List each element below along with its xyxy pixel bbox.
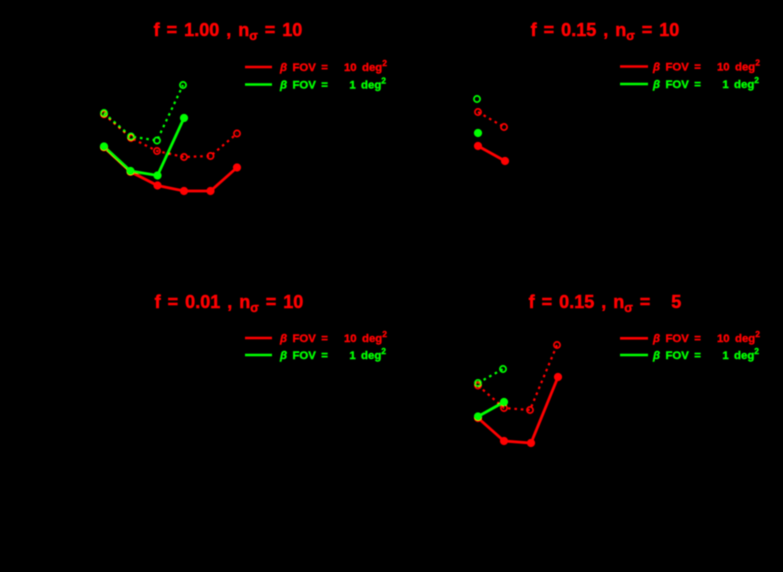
red solid curve P2 <box>478 146 505 161</box>
green open circle P2 <box>474 96 480 102</box>
legend line green <box>620 83 648 86</box>
red filled circles P1 <box>100 143 241 195</box>
green filled circles P4 <box>474 398 508 421</box>
red dashed curve P4 <box>478 345 557 410</box>
green open circles P4 <box>475 366 506 386</box>
red solid curve P4 <box>478 377 558 443</box>
red filled circles P2 <box>474 142 509 165</box>
legend line green <box>620 354 648 357</box>
green solid curve P1 <box>104 118 184 176</box>
red open circles P4 <box>475 342 560 413</box>
svg-text:f = 0.01 , nσ = 10: f = 0.01 , nσ = 10 <box>155 292 304 315</box>
red dashed curve P2 <box>478 112 504 127</box>
legend line red <box>620 65 648 68</box>
red open circles P2 <box>475 109 507 130</box>
green solid curve P4 <box>478 402 504 417</box>
green filled circle P2 <box>474 129 482 137</box>
red solid curve P1 <box>104 147 237 191</box>
legend line green (1 deg^2) <box>245 83 272 86</box>
legend line red <box>245 337 272 340</box>
legend line green <box>245 354 272 357</box>
svg-text:f = 0.15 , nσ = 10: f = 0.15 , nσ = 10 <box>531 20 680 43</box>
green filled circles P1 <box>100 114 188 180</box>
legend line red <box>620 337 648 340</box>
svg-text:f = 1.00 , nσ = 10: f = 1.00 , nσ = 10 <box>154 20 303 43</box>
red dashed curve P1 <box>104 114 237 157</box>
green dashed curve P1 <box>104 85 183 141</box>
legend line red (10 deg^2) <box>245 66 272 69</box>
red open circles P1 <box>101 111 240 160</box>
svg-text:f = 0.15 , nσ = 5: f = 0.15 , nσ = 5 <box>529 292 682 315</box>
red filled circles P4 <box>474 373 562 447</box>
green dashed curve P4 <box>478 369 503 383</box>
green open circles P1 <box>101 82 186 144</box>
